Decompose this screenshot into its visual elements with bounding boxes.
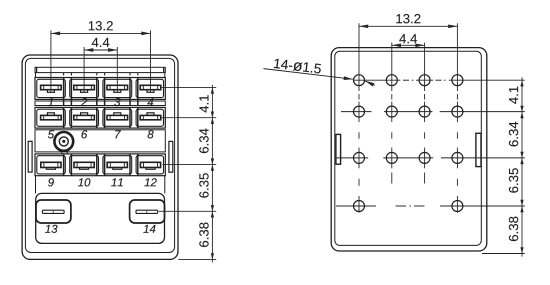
partition wall at x=100.7 bbox=[96, 107, 98, 128]
dimension arrows (right view) bbox=[520, 80, 523, 86]
socket body inner shell line bbox=[25, 58, 174, 252]
dimension 4.4 (left view) text bbox=[92, 38, 110, 47]
contact 2 (tab below) bbox=[74, 85, 95, 89]
dimension text 6.38 (left view) bbox=[199, 223, 208, 247]
partition wall at x=67.5 bbox=[63, 78, 65, 106]
dimension 13.2 (left view) line bbox=[51, 32, 151, 34]
contact 3 (tab below) bbox=[107, 85, 128, 89]
pin number 14 bbox=[143, 225, 155, 233]
contact cell third col 2 bbox=[70, 156, 99, 174]
vertical dimension line (left view) bbox=[211, 85, 213, 263]
contact cell second col 2 bbox=[70, 109, 99, 126]
contact 12 (slot with bottom tab) bbox=[140, 162, 160, 167]
contact cell third col 1 bbox=[37, 156, 66, 174]
dimension text 6.35 (left view) bbox=[199, 173, 208, 197]
dimension arrows (right view) bbox=[520, 247, 523, 253]
partition wall at x=100.7 bbox=[96, 154, 98, 176]
contact cell upper col 2 bbox=[70, 79, 99, 97]
pin number 13 bbox=[45, 225, 57, 233]
dimension arrows (right view) bbox=[520, 112, 523, 118]
contact 14 housing bbox=[130, 200, 165, 223]
column 4 centerline (right view) bbox=[456, 23, 458, 91]
dimension 4.4 (right view) text bbox=[399, 34, 417, 43]
dimension text 4.1 (left view) bbox=[199, 95, 208, 112]
extension line row 1 (left view) bbox=[161, 86, 216, 88]
label 14-dia1.5 bbox=[274, 59, 322, 74]
drill hole 1 bbox=[354, 75, 365, 86]
drill hole 8 bbox=[452, 106, 463, 117]
drilling pattern body inner bbox=[335, 51, 482, 245]
left side mounting tab bbox=[28, 141, 32, 172]
row 1 centerline (right view) bbox=[353, 79, 400, 81]
drill hole 6 bbox=[386, 106, 397, 117]
top rail right end tick bbox=[163, 67, 165, 72]
contact 5 (tab above) bbox=[41, 115, 62, 119]
middle band with screw bbox=[35, 130, 165, 152]
pin numbers 1-4 bbox=[48, 98, 53, 106]
drill hole 4 bbox=[452, 75, 463, 86]
drill hole 12 bbox=[452, 152, 463, 163]
contact 10 (slot with bottom tab) bbox=[74, 162, 94, 167]
extension line row 4 (left view) bbox=[159, 210, 216, 212]
upper row block bbox=[35, 78, 165, 100]
partition wall at x=133.9 bbox=[129, 154, 131, 176]
dimension arrows bbox=[211, 118, 214, 124]
left mounting tab (right view) bbox=[336, 134, 341, 164]
partition wall at x=67.5 bbox=[63, 107, 65, 128]
contact cell second col 4 bbox=[136, 109, 163, 126]
contact 9 (slot with bottom tab) bbox=[41, 162, 61, 167]
partition stubs below top rail bbox=[63, 73, 65, 76]
bottom edge extension line (right view) bbox=[482, 253, 525, 255]
top rail left end tick bbox=[36, 67, 38, 72]
drill hole 3 bbox=[419, 75, 430, 86]
contact 13 housing bbox=[36, 200, 71, 223]
extension line row 3 (left view) bbox=[162, 164, 216, 166]
drill hole 2 bbox=[386, 75, 397, 86]
contact cell third col 3 bbox=[103, 156, 132, 174]
dimension arrows bbox=[211, 165, 214, 171]
side wall connector below top rail left bbox=[35, 73, 37, 78]
drilling pattern body outer bbox=[331, 48, 487, 251]
vertical dimension line (right view) bbox=[521, 77, 523, 256]
bottom block bbox=[36, 193, 165, 243]
contact cell second col 1 bbox=[37, 109, 66, 126]
dimension arrows bbox=[211, 253, 214, 259]
dimension text 4.1 (right view) bbox=[509, 86, 518, 103]
number strip 1-4 bbox=[35, 101, 165, 106]
dimension arrows (right view) bbox=[520, 206, 523, 212]
dimension 4.4 (right view) line bbox=[392, 44, 425, 46]
contact 13 slot bbox=[42, 210, 64, 213]
screw inner circle bbox=[59, 137, 68, 146]
dimension 13.2 (right view) text bbox=[396, 14, 420, 23]
contact 7 (tab above) bbox=[107, 115, 128, 119]
right mounting tab (right view) bbox=[476, 133, 481, 166]
pin numbers 5-8 bbox=[48, 130, 54, 138]
side wall connector above bottom block left bbox=[35, 176, 37, 194]
partition wall at x=67.5 bbox=[63, 154, 65, 176]
extension line row 2 (left view) bbox=[161, 117, 216, 119]
drill hole 11 bbox=[419, 152, 430, 163]
partition wall at x=133.9 bbox=[129, 78, 131, 106]
extension line col2 (left) bbox=[83, 47, 85, 92]
drill hole 5 bbox=[354, 106, 365, 117]
dimension text 6.34 (right view) bbox=[509, 122, 518, 147]
contact 14 slot bbox=[136, 210, 158, 213]
column 2 centerline (right view) bbox=[391, 43, 393, 91]
drill hole 7 bbox=[419, 106, 430, 117]
row 2 centerline (right view) bbox=[341, 111, 372, 113]
drill hole 10 bbox=[386, 152, 397, 163]
side wall connector above bottom block right bbox=[164, 176, 166, 194]
extension line row 5 (left view) bbox=[178, 258, 216, 260]
drill hole 14 bbox=[452, 201, 463, 212]
leader second arrow bbox=[364, 79, 374, 86]
third row block bbox=[35, 154, 165, 176]
contact 1 (tab below) bbox=[41, 85, 62, 89]
pin numbers 9-12 bbox=[48, 178, 54, 186]
drill hole 9 bbox=[354, 152, 365, 163]
dimension arrows (right view) bbox=[520, 158, 523, 164]
dimension 13.2 (left view) text bbox=[89, 21, 113, 30]
contact 6 (tab above) bbox=[74, 115, 95, 119]
contact 4 (tab below) bbox=[140, 85, 161, 89]
contact cell second col 3 bbox=[103, 109, 132, 126]
leader line 14-dia1.5 bbox=[264, 69, 353, 80]
contact 11 (slot with bottom tab) bbox=[107, 162, 127, 167]
extension line col3 (left) bbox=[116, 47, 118, 92]
extension line col4 (left) bbox=[150, 30, 152, 92]
contact cell upper col 1 bbox=[37, 79, 66, 97]
screw boss outer circle bbox=[54, 132, 73, 151]
right side mounting tab bbox=[169, 141, 173, 172]
contact 8 (tab above) bbox=[140, 115, 161, 119]
dimension text 6.35 (right view) bbox=[509, 168, 518, 192]
side wall connector below top rail right bbox=[164, 73, 166, 78]
contact cell upper col 4 bbox=[136, 79, 163, 97]
extension line col1 (left) bbox=[50, 30, 52, 92]
second row block bbox=[35, 107, 165, 128]
column 1 centerline (right view) bbox=[358, 23, 360, 91]
dimension text 6.38 (right view) bbox=[509, 217, 518, 241]
dimension arrows bbox=[211, 211, 214, 217]
contact cell third col 4 bbox=[136, 156, 163, 174]
drill hole 13 bbox=[354, 201, 365, 212]
column 3 centerline (right view) bbox=[424, 43, 426, 91]
partition wall at x=100.7 bbox=[96, 78, 98, 106]
dimension 4.4 (left view) line bbox=[84, 49, 117, 51]
socket body outer shell (front view) bbox=[22, 55, 178, 259]
top rail bar bbox=[35, 67, 165, 72]
contact cell upper col 3 bbox=[103, 79, 132, 97]
row 3 centerline (right view) bbox=[336, 157, 368, 159]
screw center dot bbox=[62, 140, 65, 143]
dimension 13.2 (right view) line bbox=[359, 25, 457, 27]
dimension arrows bbox=[211, 87, 214, 93]
key notch under screw bbox=[61, 151, 63, 154]
row 4 centerline (right view) bbox=[336, 205, 376, 207]
partition wall at x=133.9 bbox=[129, 107, 131, 128]
dimension text 6.34 (left view) bbox=[199, 128, 208, 153]
